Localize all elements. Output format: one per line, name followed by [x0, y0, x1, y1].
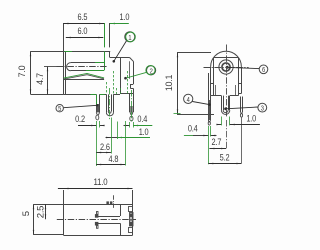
svg-text:10.1: 10.1: [164, 75, 174, 92]
svg-text:2: 2: [149, 68, 153, 76]
svg-text:1.0: 1.0: [120, 12, 130, 22]
svg-text:5.2: 5.2: [220, 153, 230, 163]
svg-text:2.7: 2.7: [212, 137, 222, 147]
svg-text:1.0: 1.0: [139, 128, 149, 138]
svg-text:0.4: 0.4: [137, 114, 147, 124]
svg-text:0.2: 0.2: [75, 114, 85, 124]
svg-text:6.0: 6.0: [78, 26, 88, 36]
svg-text:7.0: 7.0: [17, 65, 27, 77]
svg-text:0.4: 0.4: [188, 124, 198, 134]
svg-text:2.6: 2.6: [100, 143, 110, 153]
svg-text:4.7: 4.7: [35, 73, 45, 85]
svg-text:1: 1: [128, 34, 132, 42]
svg-text:6.5: 6.5: [78, 12, 88, 22]
svg-text:4.8: 4.8: [109, 154, 119, 164]
svg-text:5: 5: [21, 211, 32, 216]
svg-text:2.5: 2.5: [35, 206, 46, 218]
svg-text:1.0: 1.0: [246, 114, 256, 124]
svg-text:11.0: 11.0: [94, 176, 108, 187]
